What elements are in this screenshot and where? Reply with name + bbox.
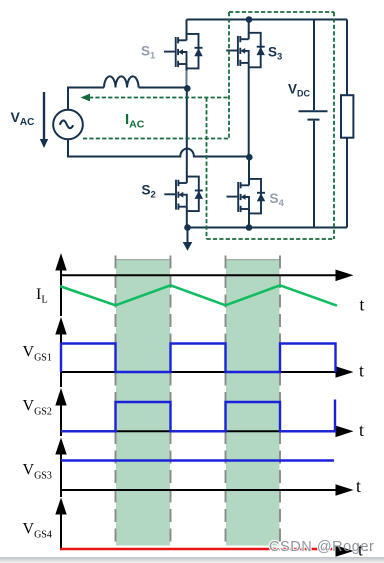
- curve VGS2 gate waveform: [61, 400, 335, 432]
- wire: leg2 midpoint to S4 drain: [248, 157, 250, 185]
- transistor S2: [164, 177, 203, 212]
- IAC arrow head: [81, 94, 91, 102]
- shaded band 1: [116, 260, 170, 546]
- capacitor VDC plates: [299, 111, 328, 119]
- shaded band 2: [226, 260, 280, 546]
- svg-text:VGS1: VGS1: [23, 344, 52, 364]
- axis VGS2: [61, 403, 337, 436]
- svg-text:..: ..: [365, 539, 373, 555]
- node: leg1 bottom rail junction: [184, 224, 191, 231]
- wire: capacitor branch top: [313, 20, 315, 111]
- curve VGS1 gate waveform: [61, 344, 336, 373]
- axis VGS1: [61, 333, 337, 388]
- wire: AC bottom wire with hop over leg1: [68, 139, 247, 157]
- svg-text:VAC: VAC: [11, 109, 35, 128]
- curve VGS4 gate waveform flat zero (red): [60, 548, 341, 551]
- wire: green dashed V2: [206, 98, 208, 240]
- svg-text:IL: IL: [36, 286, 48, 306]
- svg-text:t: t: [359, 361, 364, 381]
- green dashed current loop: [83, 12, 334, 239]
- bottom strip: [0, 557, 384, 563]
- svg-text:S2: S2: [142, 183, 156, 201]
- wire: green dashed H2: [83, 138, 229, 140]
- inductor L: [104, 76, 139, 87]
- transistor S3: [248, 20, 250, 40]
- wire: capacitor branch bottom: [313, 121, 315, 228]
- svg-text:S3: S3: [268, 45, 282, 63]
- wire: AC top wire from source to leg1 midpoint: [68, 88, 104, 111]
- wire: green dashed V3 right: [333, 12, 335, 239]
- svg-text:S1: S1: [141, 43, 156, 61]
- curve VGS3 gate waveform flat high: [61, 459, 334, 461]
- wire: green dashed H3 bottom: [207, 238, 335, 240]
- AC source VAC circle: [53, 110, 83, 140]
- wire: green dashed H1 IAC arrow line: [89, 97, 229, 99]
- gray dashed grid lines: [116, 256, 281, 547]
- svg-text:t: t: [356, 476, 361, 496]
- wire: load branch bottom: [346, 138, 348, 228]
- svg-text:S4: S4: [270, 191, 285, 209]
- wire: leg1 vertical midpoint to S2 drain: [186, 88, 188, 183]
- svg-text:VDC: VDC: [288, 82, 311, 99]
- VAC polarity arrow: [40, 92, 48, 148]
- wire: S1 source light segment: [186, 71, 188, 86]
- svg-text:VGS2: VGS2: [23, 398, 52, 418]
- wire: inductor to leg1 midpoint: [139, 87, 185, 89]
- svg-text:CSDN @Roger: CSDN @Roger: [269, 539, 374, 555]
- transistor S4: [227, 179, 266, 214]
- axis IL: [61, 268, 337, 316]
- node: leg2 bottom rail junction: [246, 224, 253, 231]
- wire: green dashed V1: [228, 12, 230, 139]
- resistor load: [341, 95, 353, 138]
- svg-text:VGS3: VGS3: [23, 462, 52, 482]
- transistor S1: [186, 20, 188, 41]
- svg-text:t: t: [359, 420, 364, 440]
- curve IL inductor current: [61, 285, 336, 305]
- wire: green dashed H4 top: [229, 11, 334, 13]
- wire: top rail: [187, 19, 348, 21]
- svg-text:IAC: IAC: [125, 111, 145, 131]
- node: leg2 top rail junction: [246, 16, 253, 23]
- axis VGS4: [60, 513, 62, 550]
- svg-text:VGS4: VGS4: [23, 521, 52, 541]
- node: leg2 midpoint junction: [246, 154, 253, 161]
- wire: bottom rail: [188, 227, 348, 229]
- wire: load branch top: [346, 20, 348, 96]
- svg-text:t: t: [360, 295, 365, 315]
- axis VGS3: [61, 453, 337, 498]
- node: leg1 midpoint junction: [184, 85, 191, 92]
- ground: [183, 228, 193, 251]
